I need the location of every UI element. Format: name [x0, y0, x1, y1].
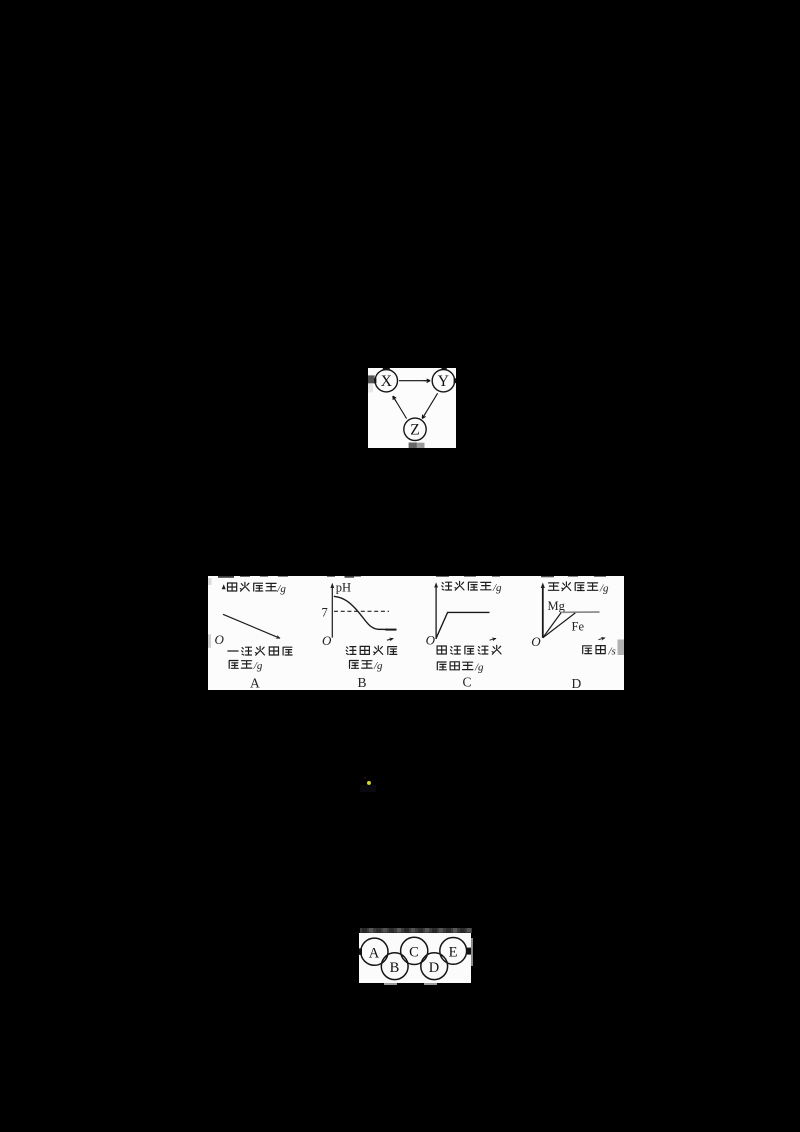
svg-text:C: C	[409, 945, 419, 961]
node Z	[403, 418, 425, 440]
svg-text:A: A	[250, 676, 260, 690]
svg-text:D: D	[571, 676, 581, 690]
svg-text:X: X	[380, 373, 391, 390]
x label row2: of mass /g	[437, 662, 484, 674]
x label row2: mass /g	[349, 660, 383, 672]
figure 3 caption smudge	[359, 927, 473, 935]
svg-text:/s: /s	[607, 645, 615, 657]
x label row2: mass /g	[229, 660, 263, 672]
edge artifacts	[359, 948, 471, 955]
y-axis	[435, 586, 437, 639]
svg-text:Mg: Mg	[547, 599, 565, 613]
y label: solid mass /g	[227, 582, 286, 594]
pH curve	[333, 596, 387, 629]
svg-text:7: 7	[321, 605, 327, 619]
Mg line	[542, 613, 560, 638]
svg-text:O: O	[322, 633, 332, 648]
y label: hydrogen mass /g	[548, 582, 609, 594]
x-axis arrow	[489, 638, 496, 640]
x-axis arrow	[387, 639, 393, 641]
svg-text:O: O	[531, 634, 541, 649]
x label: time /s	[582, 645, 615, 657]
gray marks below figure 3	[384, 983, 397, 986]
Fe line	[542, 613, 575, 638]
y-axis arrowhead	[221, 584, 225, 589]
svg-text:/g: /g	[252, 660, 262, 672]
svg-text:/g: /g	[276, 583, 286, 595]
svg-text:D: D	[429, 960, 439, 976]
svg-text:E: E	[449, 945, 458, 961]
svg-text:Y: Y	[437, 373, 448, 390]
ring D	[421, 953, 448, 980]
wire Y to Z	[422, 393, 437, 418]
plateau (gray)	[561, 611, 600, 613]
svg-text:/g: /g	[599, 582, 609, 594]
svg-text:pH: pH	[335, 581, 350, 595]
x label row1: carbon monoxide	[227, 646, 291, 655]
ring A	[361, 938, 388, 965]
descending curve	[223, 614, 280, 638]
gray strip right of figure 3	[471, 938, 473, 966]
node Y	[432, 370, 454, 392]
rise-plateau line	[436, 612, 489, 638]
scan artifacts	[208, 576, 624, 655]
svg-text:B: B	[390, 960, 400, 976]
wire X to Y	[399, 380, 430, 382]
ring C	[401, 937, 428, 964]
svg-text:/g: /g	[492, 582, 502, 594]
svg-text:A: A	[369, 945, 380, 961]
y label: precipitate mass /g	[441, 581, 501, 593]
svg-text:B: B	[357, 675, 366, 690]
y-axis	[541, 587, 543, 638]
svg-text:O: O	[425, 632, 435, 647]
scan artifacts	[368, 368, 456, 448]
node X	[375, 370, 397, 392]
svg-text:Z: Z	[410, 422, 419, 439]
figure 3: five rings A-E	[359, 933, 471, 983]
ring E	[440, 938, 467, 965]
wire Z to X	[393, 397, 406, 419]
tiny yellow speck artifact	[360, 785, 376, 791]
x-axis arrow	[598, 638, 605, 640]
svg-text:O: O	[214, 632, 224, 647]
svg-text:C: C	[462, 675, 471, 690]
figure 2: four graphs A-D	[208, 576, 624, 690]
x label row1: potassium carbonate solution	[437, 645, 501, 654]
svg-text:Fe: Fe	[571, 619, 584, 633]
svg-text:/g: /g	[373, 660, 383, 672]
ring B	[381, 953, 408, 980]
svg-text:/g: /g	[474, 662, 484, 674]
y-axis	[331, 587, 333, 638]
x label row1: distilled water	[346, 646, 397, 655]
figure 1: X Y Z cycle diagram	[368, 368, 456, 448]
dashed line at 7	[334, 610, 389, 612]
